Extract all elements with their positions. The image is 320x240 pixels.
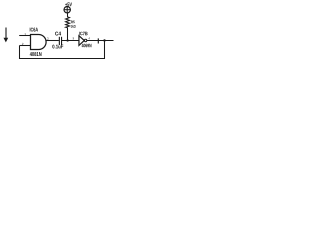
junction node right (103, 39, 105, 41)
label 4081N (30, 52, 42, 56)
inverter IC7B (79, 36, 87, 46)
label 1kOhm (71, 25, 76, 28)
pin 3 inv (73, 37, 74, 39)
label R5 (71, 21, 75, 24)
label IC7B (79, 32, 87, 36)
power +5V symbol (64, 7, 70, 13)
and-gate IC6A (31, 35, 47, 50)
annotation arrow (4, 28, 9, 43)
label IC6A (30, 28, 38, 32)
pin 2 (22, 43, 23, 45)
pin 1 (25, 33, 26, 35)
wire power to resistor (67, 13, 69, 18)
wire gate output to capacitor (45, 40, 59, 42)
pin 4 inv (88, 37, 90, 39)
wire pin2 (20, 45, 31, 47)
label 0.1uF (52, 45, 63, 49)
label 4069N (82, 44, 92, 48)
label C4 (55, 32, 61, 36)
capacitor C4 (59, 37, 62, 45)
wire capacitor to inverter (62, 40, 79, 42)
junction node (66, 39, 68, 41)
wire resistor to node (67, 28, 69, 41)
label +5V (65, 2, 72, 6)
wire inverter output (87, 40, 114, 42)
pin 3 (47, 38, 48, 40)
wire pin1 (19, 35, 31, 37)
net tick (97, 38, 99, 43)
resistor R5 (66, 17, 70, 28)
feedback wire (20, 41, 105, 59)
